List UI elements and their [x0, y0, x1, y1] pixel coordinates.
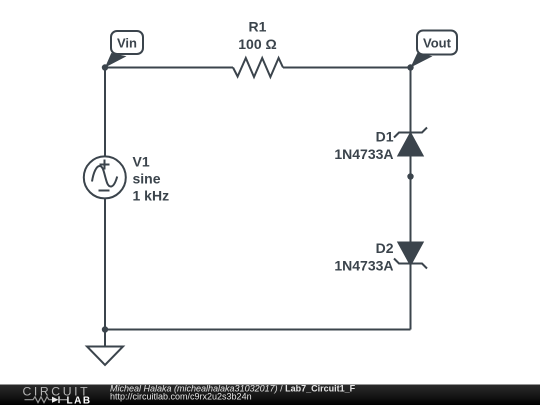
wire: D1 anode to D2 anode [410, 156, 412, 243]
label D2 [376, 240, 394, 256]
svg-text:1N4733A: 1N4733A [334, 146, 393, 162]
svg-text:D1: D1 [376, 129, 394, 145]
svg-text:1N4733A: 1N4733A [334, 258, 393, 274]
label D2 value 1N4733A [334, 258, 393, 274]
junction dot: Vin node [102, 64, 108, 70]
svg-text:V1: V1 [133, 154, 150, 170]
label R1 [249, 19, 267, 35]
voltage source V1 [84, 156, 126, 198]
junction dot: between D1 and D2 [407, 173, 413, 179]
svg-text:100 Ω: 100 Ω [238, 36, 276, 52]
resistor R1 [233, 58, 283, 77]
label D1 [376, 129, 394, 145]
wire: D2 cathode down to bottom rail [410, 264, 412, 330]
node label Vin [105, 31, 143, 68]
svg-text:http://circuitlab.com/c9rx2u2s: http://circuitlab.com/c9rx2u2s3b24n [110, 391, 252, 401]
label V1 type sine [133, 171, 161, 187]
label R1 value 100 Ω [238, 36, 276, 52]
footer attribution line [110, 383, 356, 393]
label D1 value 1N4733A [334, 146, 393, 162]
wire: Vout node down to D1 cathode [410, 68, 412, 134]
footer bar [0, 385, 540, 405]
ground [87, 330, 123, 366]
wire: Vin node to R1 left terminal [105, 67, 233, 69]
svg-text:R1: R1 [249, 19, 267, 35]
node label Vout [411, 31, 458, 68]
wire: R1 right terminal to Vout node [283, 67, 411, 69]
wire: Vin node down to V1 top [104, 68, 106, 158]
svg-text:D2: D2 [376, 240, 394, 256]
svg-text:LAB: LAB [67, 395, 92, 405]
label V1 [133, 154, 150, 170]
svg-text:1 kHz: 1 kHz [133, 188, 170, 204]
CircuitLab logo [23, 385, 92, 405]
zener diode D1 [394, 128, 427, 156]
junction dot: Vout node [407, 64, 413, 70]
footer url line [110, 391, 252, 401]
svg-text:Vin: Vin [117, 36, 137, 51]
zener diode D2 [394, 243, 427, 269]
label V1 frequency 1 kHz [133, 188, 170, 204]
junction dot: ground node [102, 326, 108, 332]
svg-text:sine: sine [133, 171, 161, 187]
svg-text:Vout: Vout [423, 36, 452, 51]
wire: V1 bottom to ground rail [104, 198, 106, 330]
wire: bottom rail [105, 329, 411, 331]
